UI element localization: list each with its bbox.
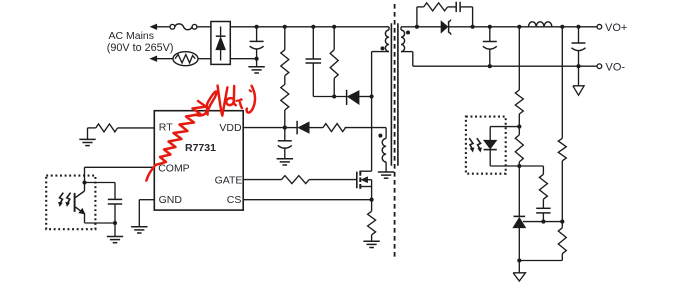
svg-text:R7731: R7731 (185, 142, 216, 154)
svg-text:(90V to 265V): (90V to 265V) (107, 42, 174, 54)
svg-text:RT: RT (159, 121, 173, 133)
svg-text:VDD: VDD (219, 122, 242, 134)
svg-text:VO+: VO+ (605, 22, 627, 34)
svg-text:GND: GND (159, 194, 183, 206)
svg-text:GATE: GATE (215, 175, 243, 187)
svg-text:VO-: VO- (606, 62, 626, 74)
svg-text:CS: CS (227, 194, 242, 206)
svg-text:AC Mains: AC Mains (109, 30, 155, 42)
